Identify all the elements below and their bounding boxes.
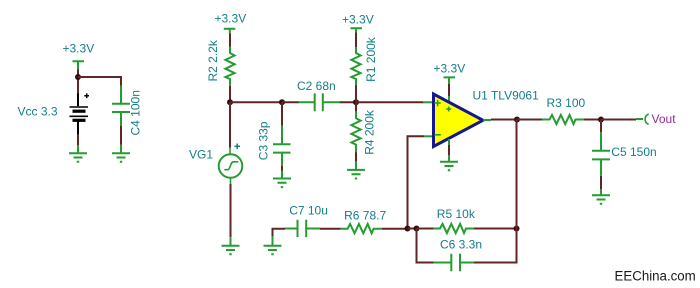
svg-text:U1 TLV9061: U1 TLV9061 [473,89,540,103]
op-amp U1 TLV9061 [434,89,540,147]
wire (R5 to node I) [474,228,517,230]
svg-text:R6 78.7: R6 78.7 [344,208,386,222]
capacitor C2 68n [297,79,340,111]
wire (node I up to node E) [516,120,518,229]
wire (green stub at port) [636,118,643,120]
wire (C3 to ground) [281,166,283,171]
capacitor C4 100n [112,86,143,136]
wire (green pin stub +input) [423,101,433,103]
wire (VG1 to ground) [230,184,232,237]
resistor R2 2.2k [206,39,235,86]
wire (ground pin middle) [448,145,450,155]
wire (green stub into op-amp top) [448,96,450,103]
wire (rail to R2) [229,34,231,47]
capacitor C5 150n [592,132,657,175]
resistor R6 78.7 [341,208,387,233]
wire (battery to ground) [77,135,79,145]
wire (R3 to node F) [584,119,601,121]
resistor R5 10k [434,207,476,233]
wire (power to node A) [77,70,79,94]
wire (inverting input stub) [424,135,433,137]
resistor R3 100 [542,96,586,124]
capacitor C6 3.3n [434,238,482,272]
capacitor C3 33p [256,121,290,166]
ground (under C5) [592,189,610,204]
node E junction [514,117,520,123]
node H junction [414,226,420,232]
svg-text:R2 2.2k: R2 2.2k [206,39,220,81]
wire (ground up and to C7) [273,229,286,236]
ground (under C3) [273,171,291,188]
wire (node G to node H) [408,228,417,230]
wire (node B down to VG1) [229,102,231,147]
wire (node E to R3) [517,119,542,121]
ground (C7 input side) [264,236,282,254]
wire (R4 to ground) [355,152,357,162]
wire (R1 to node D) [355,86,357,103]
wire (C4 to ground) [120,126,122,145]
power +3.3V rail (left supply) [63,42,95,70]
svg-text:C2 68n: C2 68n [297,79,336,93]
wire (output to node E) [491,119,517,121]
node B junction [227,99,233,105]
wire (C5 to ground) [600,176,602,189]
wire (C7 to R6) [320,228,341,230]
wire (op-amp ground pin) [448,139,450,145]
svg-text:VG1: VG1 [189,148,213,162]
power +3.3V rail (above R2) [215,12,247,34]
svg-text:C4 100n: C4 100n [129,90,143,135]
wire (R6 to node G) [382,228,408,230]
wire (node F to output port) [601,119,636,121]
svg-text:R5 10k: R5 10k [437,207,476,221]
svg-text:C3 33p: C3 33p [256,121,270,160]
svg-text:Vcc 3.3: Vcc 3.3 [18,104,58,118]
wire (rail to R1) [355,33,357,48]
svg-text:C5 150n: C5 150n [611,145,656,159]
wire (node D down to R4) [355,102,357,111]
node D junction [353,99,359,105]
voltage source VG1 [189,144,242,185]
power +3.3V rail (above R1) [342,13,374,33]
wire (node C to C2) [282,101,299,103]
wire (node H to R5) [417,228,434,230]
wire (node H down to C6) [417,229,434,263]
svg-text:+3.3V: +3.3V [434,62,466,76]
ground (under R4) [347,162,365,179]
resistor R1 200k [351,36,378,85]
svg-text:EEChina.com: EEChina.com [615,268,696,283]
node I junction [514,226,520,232]
wire (op-amp output stub) [483,119,491,121]
svg-text:R1 200k: R1 200k [364,36,378,82]
svg-text:C7 10u: C7 10u [289,204,328,218]
svg-text:+3.3V: +3.3V [215,12,247,26]
wire (supply to op-amp) [448,84,450,96]
wire (node A to C4 corner) [78,77,121,86]
svg-text:Vout: Vout [652,112,677,126]
wire (C2 to node D) [340,101,356,103]
wire (C6 to node I riser) [474,229,517,263]
ground (under battery) [69,145,87,162]
capacitor C7 10u [285,204,328,238]
svg-text:R3 100: R3 100 [547,96,586,110]
power +3.3V rail (op-amp supply) [434,62,466,84]
node A junction [75,74,81,80]
wire (R2 to node B) [229,86,231,103]
wire (node F down to C5) [600,120,602,133]
battery Vcc 3.3 [18,93,90,134]
wire (node D to op-amp +input) [356,101,423,103]
wire (node B to node C) [230,101,282,103]
svg-text:+3.3V: +3.3V [342,13,374,27]
resistor R4 200k [351,109,376,155]
ground (under VG1) [222,237,240,254]
svg-text:C6 3.3n: C6 3.3n [440,238,482,252]
node G junction [405,226,411,232]
svg-text:R4 200k: R4 200k [362,109,376,155]
ground (op-amp) [440,155,458,170]
output port Vout [645,112,676,126]
node F junction [598,117,604,123]
svg-text:+3.3V: +3.3V [63,42,95,56]
ground (under C4) [112,145,130,162]
wire (node C down to C3) [281,102,283,125]
wire (inverting input to feedback node) [408,136,425,228]
node C junction [279,99,285,105]
